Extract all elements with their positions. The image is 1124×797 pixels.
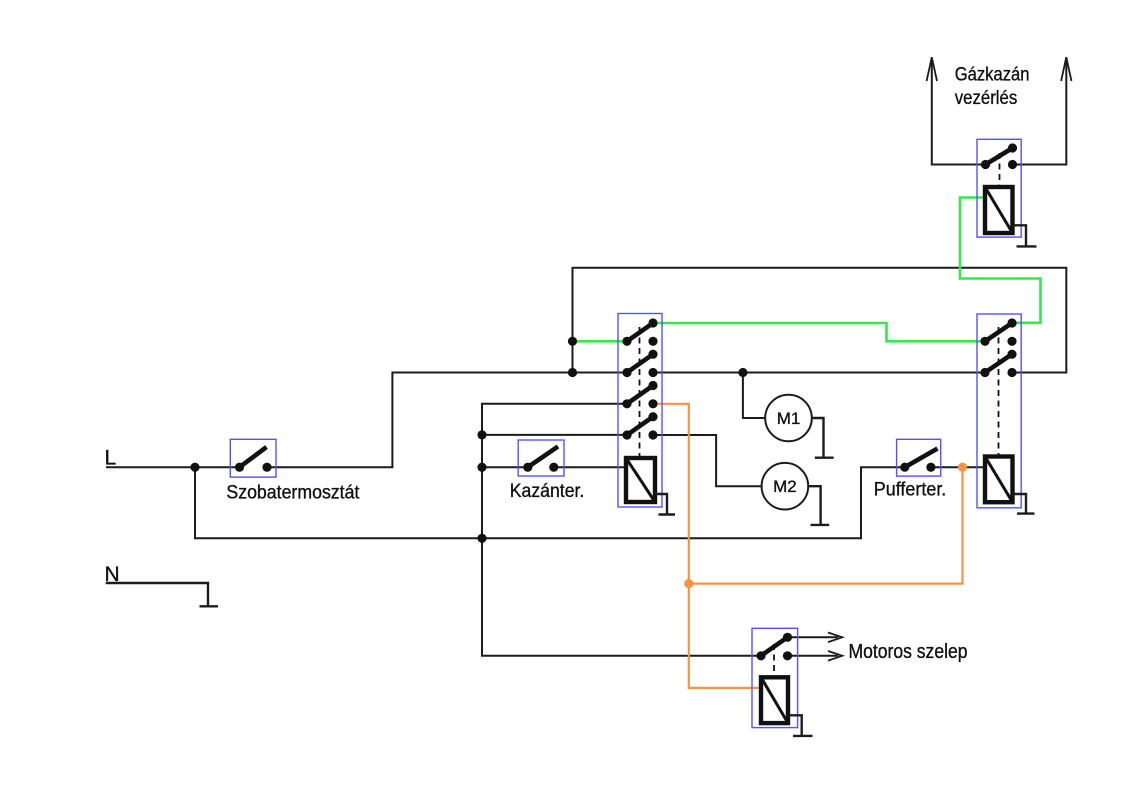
- switch S1 contacts: [235, 463, 244, 472]
- wire bus B to switch S2: [482, 466, 528, 468]
- node junction bus B / S2 feed: [477, 463, 486, 472]
- arrowhead right 1: [828, 633, 842, 643]
- relay K1 enclosure: [618, 314, 662, 508]
- ground at relay K3 coil: [1013, 225, 1037, 246]
- switch S3 arm: [905, 449, 938, 468]
- wire bottom run from node A to switch S3: [195, 467, 905, 538]
- relay K4 coil diagonal: [761, 677, 788, 723]
- orange junction: [684, 579, 693, 588]
- relay K1 pole2 contacts: [622, 368, 631, 377]
- relay K1 pole2 arm: [627, 354, 653, 372]
- orange wire branch to K2 coil feed: [689, 467, 963, 583]
- ground at relay K4 coil: [788, 715, 813, 736]
- relay K2 pole2 contacts: [980, 368, 989, 377]
- wire bus B to K1 pole4 common: [482, 434, 627, 436]
- node C junction on pole2 feed: [568, 368, 577, 377]
- green wire K3 coil to K2 pole1 NO contact: [960, 198, 1041, 323]
- wire S1 to relay K1 pole2 common: [267, 373, 627, 468]
- wire S2 to relay K1 coil: [554, 466, 626, 468]
- relay K1 coil: [626, 458, 655, 502]
- green wire node C to K1 pole1 common: [573, 340, 628, 343]
- switch S3 Pufferter: [897, 439, 941, 476]
- switch S2 Kazánter: [518, 440, 564, 476]
- relay K4 actuator dashed link: [773, 644, 775, 677]
- wire K1 pole2 NC contact to K2 pole2 common: [653, 372, 985, 374]
- relay K2 enclosure: [977, 314, 1021, 508]
- svg-text:M1: M1: [777, 409, 801, 428]
- orange junction on K2 coil feed: [958, 463, 967, 472]
- switch S3 enclosure: [897, 439, 941, 476]
- svg-text:N: N: [105, 563, 120, 586]
- wire left output line with arrow to Gázkazán: [932, 59, 986, 165]
- relay K3 arm: [986, 148, 1013, 165]
- arrowhead up left: [927, 57, 937, 81]
- arrowhead up right: [1061, 57, 1071, 81]
- ground at motor M2: [808, 486, 829, 525]
- node junction bus B / bottom run: [477, 534, 486, 543]
- relay K2 (right, 2 poles): [977, 314, 1021, 508]
- node A junction on L line: [190, 463, 199, 472]
- motor M1: [765, 395, 812, 442]
- relay K2 coil: [985, 457, 1013, 503]
- relay K1 pole4 contacts: [622, 430, 631, 439]
- wire loop from node C up over to relay K2 pole2 NC contact: [573, 268, 1067, 373]
- relay K2 actuator dashed link: [998, 327, 1000, 457]
- relay K3 coil: [985, 187, 1013, 233]
- svg-text:vezérlés: vezérlés: [955, 88, 1018, 109]
- green wire K1 pole1 NO contact to K2 pole1 common: [653, 323, 985, 341]
- switch S2 enclosure: [518, 440, 564, 476]
- wire K1 pole4 NC contact to motor M2: [653, 435, 762, 486]
- relay K1 pole1 arm: [627, 323, 653, 341]
- relay K3 enclosure: [977, 139, 1021, 237]
- ground at relay K1 coil: [655, 494, 675, 515]
- switch S2 arm: [528, 447, 558, 468]
- relay K1 pole1 contacts: [622, 337, 631, 346]
- node C junction green tap: [568, 337, 577, 346]
- relay K4 arm: [761, 637, 788, 656]
- ground at relay K2 coil: [1013, 494, 1035, 514]
- relay K2 pole1 arm: [985, 323, 1012, 341]
- wire L feed to S1: [106, 466, 240, 468]
- relay K3 actuator dashed link: [999, 153, 1001, 187]
- wire vertical bus B: K1 pole3 common feed down to relay K4 common: [482, 404, 761, 656]
- wire K4 NC contact to Motoros szelep arrow 2: [788, 655, 839, 657]
- switch S1 Szobatermosztát: [230, 439, 276, 477]
- wire K4 NO contact to Motoros szelep arrow 1: [788, 636, 839, 638]
- svg-text:M2: M2: [773, 477, 797, 496]
- switch S1 arm: [240, 447, 267, 467]
- relay K1 pole4 arm: [627, 417, 653, 435]
- ground at motor M1: [812, 418, 834, 458]
- relay K3 (top, Gázkazán): [977, 139, 1021, 237]
- relay K3 contacts: [981, 160, 990, 169]
- relay K4 coil: [761, 677, 788, 723]
- relay K2 coil diagonal: [985, 457, 1013, 503]
- relay K1 actuator dashed link: [639, 327, 641, 458]
- svg-text:Gázkazán: Gázkazán: [955, 65, 1030, 86]
- node junction M1 tap: [738, 368, 747, 377]
- motor M2: [762, 463, 809, 510]
- svg-text:Szobatermosztát: Szobatermosztát: [226, 483, 360, 504]
- wire S3 to relay K2 coil: [931, 466, 985, 468]
- relay K1 pole3 arm: [627, 386, 653, 404]
- relay K2 pole1 contacts: [980, 337, 989, 346]
- switch S3 contacts: [900, 463, 909, 472]
- svg-text:Pufferter.: Pufferter.: [874, 480, 947, 501]
- relay K3 coil diagonal: [985, 187, 1013, 233]
- orange wire K1 pole3 NC contact to relay K4 coil: [653, 404, 761, 688]
- relay K2 pole2 arm: [985, 354, 1012, 372]
- switch S1 enclosure: [230, 439, 276, 477]
- relay K4 (bottom, Motoros szelep): [752, 628, 798, 727]
- relay K1 (middle, 4 poles): [618, 314, 662, 508]
- svg-text:Motoros szelep: Motoros szelep: [849, 641, 968, 663]
- switch S2 contacts: [523, 463, 532, 472]
- wire branch to motor M1: [743, 373, 765, 419]
- svg-text:Kazánter.: Kazánter.: [510, 481, 585, 502]
- node junction bus B / pole4 feed: [477, 430, 486, 439]
- relay K1 pole3 contacts: [622, 399, 631, 408]
- relay K4 contacts: [756, 651, 765, 660]
- wire N terminal: [106, 583, 218, 606]
- arrowhead right 2: [828, 651, 842, 661]
- relay K1 coil diagonal: [626, 458, 655, 502]
- svg-text:L: L: [105, 447, 117, 470]
- wire right output line with arrow from K3 NC contact: [1013, 59, 1067, 165]
- relay K4 enclosure: [752, 628, 798, 727]
